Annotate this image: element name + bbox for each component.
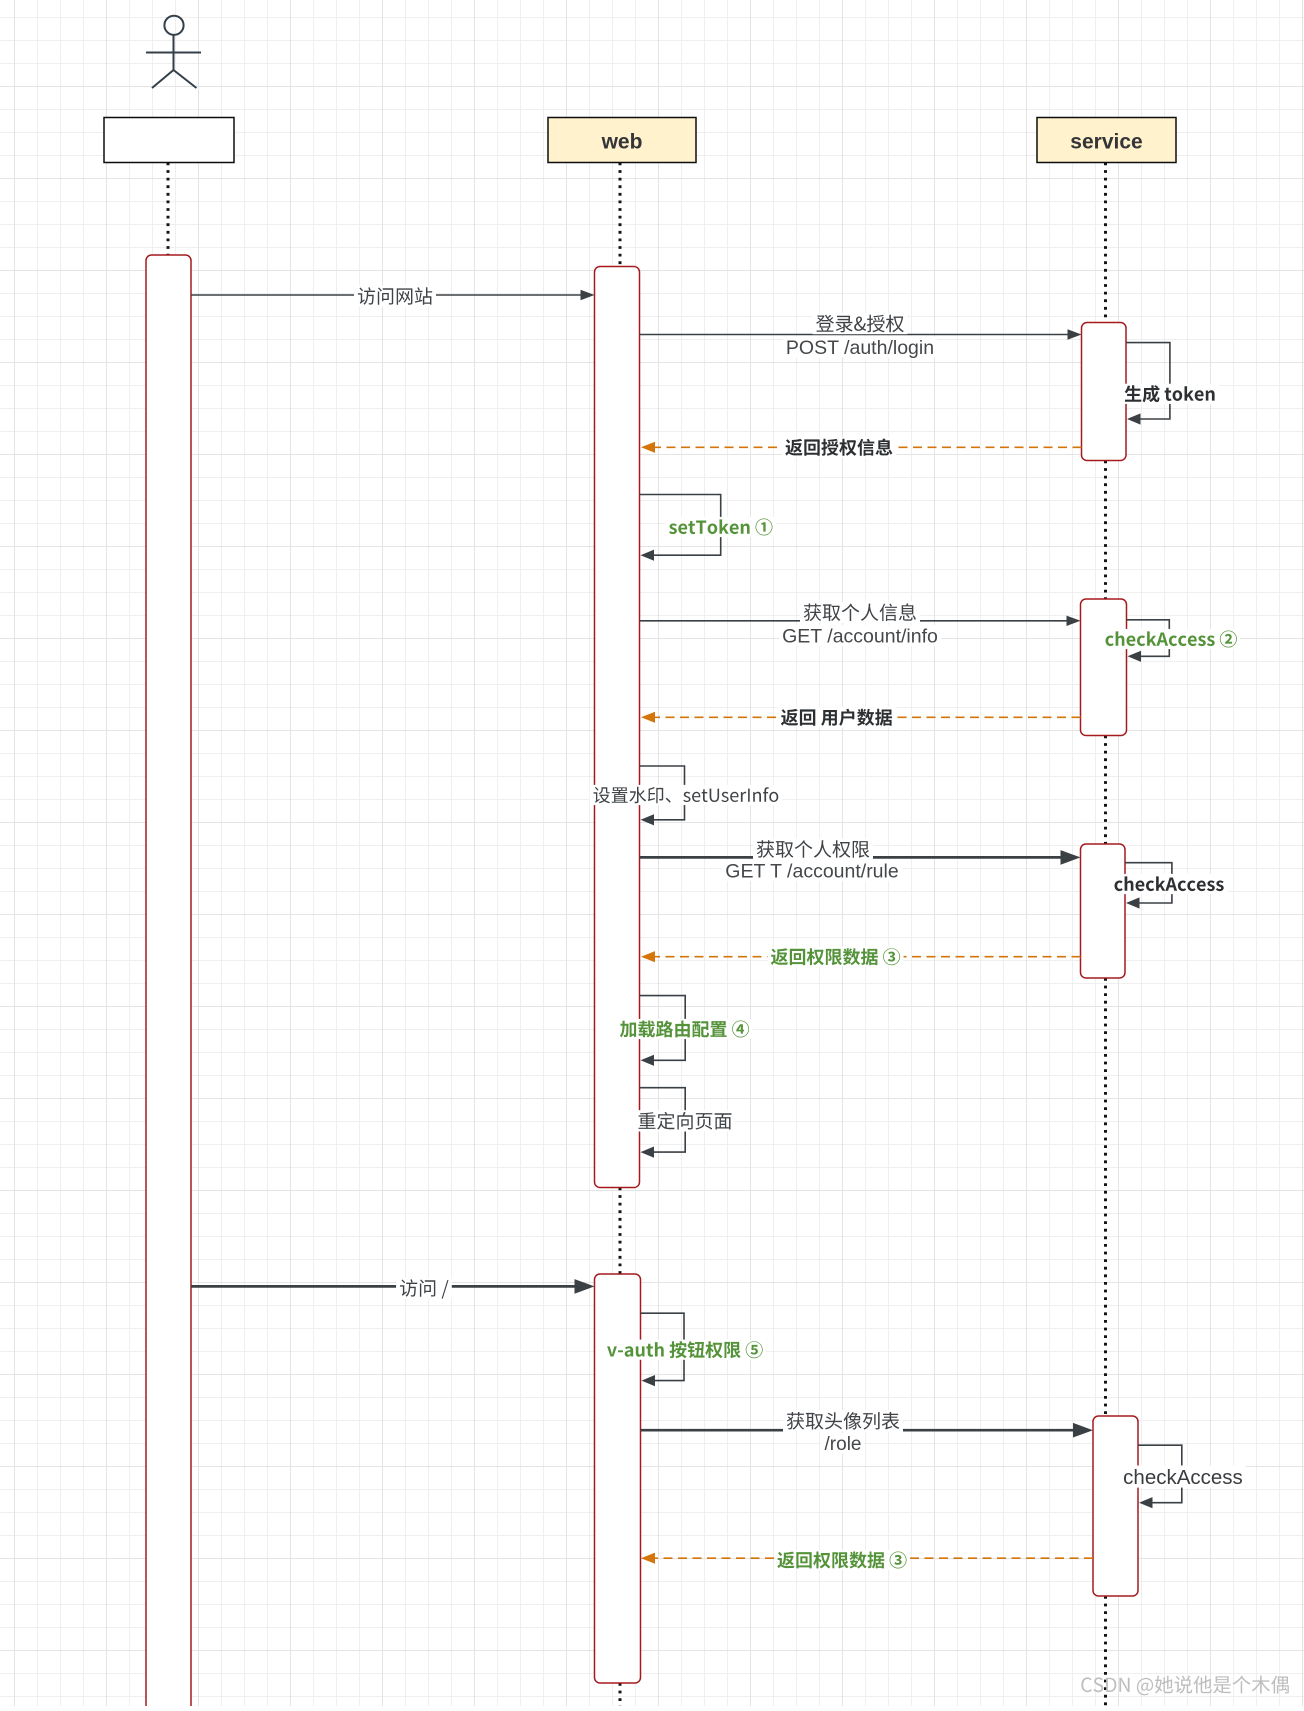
activation bar web 2 — [595, 1274, 641, 1683]
label checkAccess 4 — [1120, 1466, 1246, 1488]
self-loop checkAccess 3 — [1125, 863, 1172, 903]
label 登录&授权 — [813, 313, 908, 334]
message 获取个人信息 — [640, 620, 1067, 622]
label GET T /account/rule — [722, 860, 903, 881]
service box — [1037, 118, 1176, 163]
label 生成 token — [1121, 384, 1219, 404]
actor label box — [104, 118, 234, 163]
message 获取个人权限 — [640, 856, 1061, 859]
svg-text:GET /account/info: GET /account/info — [782, 625, 938, 647]
activation bar service 4 — [1093, 1416, 1138, 1596]
self-loop checkAccess 4 — [1138, 1445, 1182, 1503]
label 返回权限数据 3b — [774, 1550, 910, 1570]
label 获取头像列表 — [783, 1410, 903, 1431]
self-loop 生成 token — [1126, 343, 1170, 419]
activation bar actor — [146, 255, 191, 1711]
label 获取个人信息 — [800, 602, 920, 623]
message 登录&授权 — [640, 334, 1068, 336]
svg-text:service: service — [1070, 131, 1142, 154]
return 返回权限数据 3b — [655, 1557, 1093, 1559]
svg-text:checkAccess: checkAccess — [1123, 1466, 1243, 1489]
label POST /auth/login — [783, 337, 938, 358]
activation bar service 1 — [1082, 323, 1127, 461]
activation bar service 3 — [1081, 844, 1126, 978]
lifeline web — [619, 163, 622, 267]
return 返回授权信息 — [655, 446, 1082, 448]
self-loop 加载路由配置 — [640, 996, 686, 1061]
label 返回授权信息 — [782, 437, 896, 457]
self-loop checkAccess 2 — [1127, 620, 1170, 657]
label 返回用户数据 — [778, 707, 896, 727]
activation bar web 1 — [595, 267, 640, 1188]
label 返回权限数据 3 — [768, 947, 904, 967]
web box — [548, 118, 696, 163]
self-loop v-auth — [641, 1313, 685, 1380]
svg-text:GET T /account/rule: GET T /account/rule — [725, 860, 898, 882]
return 返回用户数据 — [655, 716, 1081, 718]
label setToken 1 — [666, 517, 776, 537]
self-loop 重定向页面 — [640, 1088, 686, 1152]
actor stick figure — [146, 16, 201, 88]
label /role — [822, 1433, 865, 1454]
label 设置水印 setUserInfo — [590, 785, 783, 805]
label 获取个人权限 — [753, 838, 873, 859]
activation bar service 2 — [1081, 599, 1127, 736]
label 访问 / — [396, 1277, 452, 1298]
lifeline actor — [167, 163, 170, 256]
self-loop setToken — [640, 495, 721, 556]
label checkAccess 3 — [1111, 874, 1228, 894]
label v-auth 按钮权限 5 — [604, 1340, 766, 1360]
svg-text:/role: /role — [825, 1434, 862, 1455]
label checkAccess 2 — [1102, 629, 1241, 649]
lifeline service — [1104, 163, 1107, 323]
svg-text:POST /auth/login: POST /auth/login — [786, 337, 934, 359]
message 获取头像列表 — [641, 1429, 1074, 1432]
self-loop setUserInfo — [640, 766, 685, 820]
watermark CSDN — [1081, 1676, 1289, 1696]
label 加载路由配置 4 — [617, 1019, 753, 1039]
label GET /account/info — [779, 625, 941, 646]
message 访问网站 — [191, 294, 581, 296]
return 返回权限数据 3 — [655, 956, 1081, 958]
label 访问网站 — [354, 285, 436, 306]
label 重定向页面 — [635, 1110, 736, 1131]
svg-text:web: web — [601, 131, 643, 154]
message 访问 / — [191, 1285, 575, 1288]
